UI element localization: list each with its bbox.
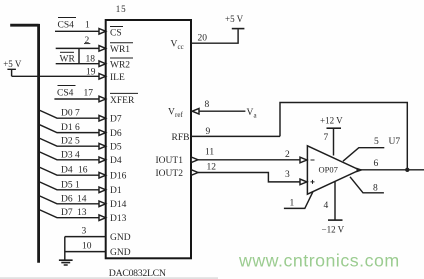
- svg-text:RFB: RFB: [172, 133, 190, 143]
- svg-text:15: 15: [116, 4, 127, 14]
- svg-text:V: V: [168, 108, 175, 118]
- svg-text:2: 2: [285, 150, 290, 160]
- svg-text:18: 18: [86, 55, 96, 65]
- wire IOUT2 pin 12 to op-amp non-inverting input: [198, 173, 300, 182]
- svg-text:8: 8: [373, 184, 378, 194]
- pin arrow XFER: [99, 96, 106, 102]
- svg-text:XFER: XFER: [110, 96, 135, 106]
- wire D6 to pin 14: [40, 196, 100, 204]
- wire output pin 6 to right edge: [360, 169, 424, 171]
- svg-text:D6 14: D6 14: [61, 194, 87, 204]
- wire op-amp pin 5 stub: [343, 148, 384, 162]
- pin arrow CS: [99, 29, 106, 35]
- pin arrow IOUT2 (out of chip): [191, 170, 198, 176]
- svg-text:−12 V: −12 V: [322, 225, 345, 235]
- wire Vref pin 8: [199, 110, 246, 112]
- wire D0 to pin 7: [40, 110, 100, 118]
- svg-text:D5 1: D5 1: [61, 180, 80, 190]
- wire op-amp pin 1 stub (offset null): [284, 192, 313, 209]
- svg-text:GND: GND: [110, 233, 131, 243]
- svg-text:U7: U7: [389, 137, 401, 147]
- wire GND pin10: [65, 251, 106, 253]
- svg-text:CS: CS: [110, 28, 122, 38]
- svg-text:cc: cc: [178, 43, 184, 51]
- wire feedback loop (up, across, down to output): [280, 103, 407, 170]
- svg-text:OP07: OP07: [319, 165, 338, 175]
- svg-text:D1 6: D1 6: [61, 123, 80, 133]
- -12V power symbol: [328, 219, 343, 221]
- svg-text:D6: D6: [110, 129, 122, 139]
- svg-text:D7 13: D7 13: [61, 208, 87, 218]
- svg-text:2: 2: [85, 36, 90, 46]
- wire D5 to pin 15: [40, 182, 100, 190]
- svg-text:17: 17: [84, 89, 94, 99]
- svg-text:GND: GND: [110, 248, 131, 258]
- svg-text:IOUT2: IOUT2: [156, 169, 184, 179]
- svg-text:D16: D16: [110, 172, 127, 182]
- arrow into op-amp pin 3: [300, 179, 307, 185]
- chip U5 DAC0832LCN body: [106, 20, 191, 258]
- wire GND connector: [64, 237, 66, 260]
- wire D3 to pin 4: [40, 152, 100, 160]
- wire WR connector vertical: [78, 48, 80, 63]
- output arrowhead at apex: [357, 168, 364, 173]
- scan artifact bottom line: [0, 277, 218, 279]
- wire CS4 to pin 17 (XFER): [54, 98, 99, 100]
- svg-text:WR2: WR2: [110, 61, 130, 71]
- svg-text:19: 19: [86, 68, 96, 78]
- wire op-amp pin 8 stub: [350, 177, 384, 193]
- svg-text:3: 3: [82, 227, 87, 237]
- svg-text:+12 V: +12 V: [320, 116, 343, 126]
- wire D7 to pin 13: [40, 210, 100, 218]
- pin label WR1 (inside, overlined): [110, 43, 133, 56]
- svg-text:1: 1: [290, 199, 295, 209]
- +5V power symbol (left, feeding ILE): [7, 69, 16, 76]
- wire IOUT1 pin 11 to op-amp inverting input: [198, 159, 300, 161]
- +5V power symbol (right): [232, 28, 245, 30]
- arrow into op-amp pin 2: [300, 157, 307, 163]
- svg-text:DAC0832LCN: DAC0832LCN: [109, 268, 166, 279]
- svg-text:D4: D4: [110, 156, 122, 166]
- wire WR to pin 18 (WR2): [56, 63, 100, 65]
- svg-text:11: 11: [205, 148, 214, 158]
- svg-text:D3 4: D3 4: [61, 150, 80, 160]
- wire Vcc pin 20 to +5V: [191, 29, 238, 43]
- wire D2 to pin 5: [40, 138, 100, 146]
- pin arrow WR1: [99, 46, 106, 52]
- svg-text:D1: D1: [110, 186, 122, 196]
- wire RFB pin 9 to feedback: [191, 135, 280, 137]
- svg-text:D4 16: D4 16: [61, 166, 88, 176]
- pin label WR2 (inside, overlined): [110, 58, 133, 71]
- svg-text:ref: ref: [175, 111, 183, 119]
- svg-text:6: 6: [374, 159, 379, 169]
- op-amp minus sign: [311, 159, 315, 161]
- svg-text:+5 V: +5 V: [225, 14, 244, 24]
- wire D1 to pin 6: [40, 125, 100, 133]
- bus (thick L-shaped data bus line, top-left): [10, 24, 38, 263]
- svg-text:www.cntronics.com: www.cntronics.com: [238, 251, 400, 271]
- pin arrow WR2: [99, 61, 106, 67]
- wire op-amp pin 4 to -12V: [334, 182, 336, 220]
- svg-text:5: 5: [374, 137, 379, 147]
- wire op-amp pin 7 to +12V: [333, 129, 335, 156]
- svg-text:V: V: [171, 40, 178, 50]
- pin arrow ILE: [99, 74, 106, 80]
- pin arrow Vref (pointing left into chip): [192, 108, 199, 114]
- svg-text:+5 V: +5 V: [3, 59, 22, 69]
- ground: [59, 260, 73, 265]
- pin arrow IOUT1 (out of chip): [191, 157, 198, 163]
- svg-text:a: a: [254, 112, 258, 120]
- wire tick under pin-2 label: [84, 43, 90, 45]
- svg-text:20: 20: [198, 34, 208, 44]
- svg-text:D2 5: D2 5: [61, 137, 80, 147]
- node CS4 label overline (XFER row): [58, 85, 76, 87]
- +12V power symbol: [327, 127, 342, 129]
- wire D4 to pin 16: [40, 167, 100, 175]
- wire GND pin3: [65, 236, 106, 238]
- svg-text:3: 3: [285, 170, 290, 180]
- svg-text:WR1: WR1: [110, 45, 130, 55]
- wire +5V to pin 19 (ILE): [12, 75, 100, 77]
- svg-text:D14: D14: [110, 200, 127, 210]
- svg-text:4: 4: [324, 201, 329, 211]
- pin label XFER (inside, overlined): [110, 93, 138, 105]
- svg-text:12: 12: [207, 163, 217, 173]
- svg-text:D5: D5: [110, 143, 122, 153]
- svg-text:10: 10: [82, 242, 92, 252]
- node WR label overline: [60, 51, 74, 53]
- wire CS4 to pin 1: [55, 30, 100, 32]
- svg-text:WR: WR: [60, 55, 76, 65]
- svg-text:V: V: [247, 108, 254, 118]
- junction dot (output / feedback): [405, 168, 409, 172]
- pin label CS (inside, overlined): [110, 27, 123, 39]
- svg-text:9: 9: [206, 127, 211, 137]
- svg-text:D7: D7: [110, 115, 122, 125]
- svg-text:1: 1: [85, 21, 90, 31]
- svg-text:CS4: CS4: [57, 89, 74, 99]
- op-amp U7 OP07 triangle: [307, 146, 359, 194]
- svg-text:D13: D13: [110, 214, 127, 224]
- node CS4 label overline: [58, 17, 76, 19]
- wire WR to pin 2 (WR1): [56, 47, 100, 49]
- svg-text:CS4: CS4: [58, 21, 75, 31]
- svg-text:8: 8: [205, 100, 210, 110]
- svg-text:ILE: ILE: [110, 73, 125, 83]
- svg-text:D0 7: D0 7: [61, 109, 80, 119]
- svg-text:IOUT1: IOUT1: [156, 156, 184, 166]
- svg-text:7: 7: [324, 133, 329, 143]
- op-amp plus sign: [311, 180, 315, 184]
